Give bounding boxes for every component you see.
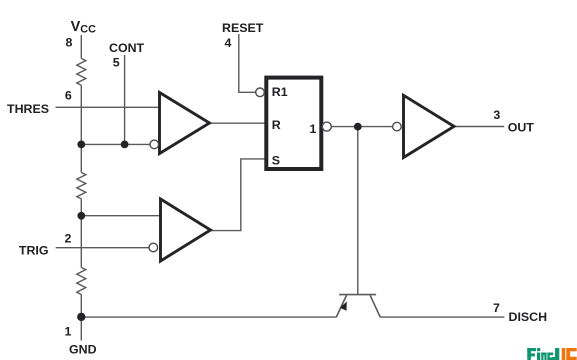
latch U4 box [266, 78, 321, 169]
comparator U1 [160, 93, 210, 154]
svg-text:3: 3 [493, 108, 500, 122]
logo FindIC [527, 348, 576, 360]
transistor Q1 emitter arrow [340, 302, 347, 311]
bubble comparator2 inverting input [149, 243, 158, 252]
wire Vcc stub [80, 35, 82, 58]
svg-text:R: R [272, 118, 281, 132]
svg-text:GND: GND [69, 343, 97, 357]
svg-text:TRIG: TRIG [19, 243, 49, 257]
wire node1 to comparator1 inverting [81, 143, 150, 145]
svg-text:5: 5 [113, 56, 120, 70]
wire THRES pin 6 [56, 106, 161, 108]
wire DISCH pin 7 [380, 316, 504, 318]
wire comparator2 output to S [209, 159, 265, 231]
transistor Q1 [336, 295, 380, 318]
svg-text:2: 2 [65, 231, 72, 245]
logo letter i [537, 348, 540, 360]
wire rail bottom [80, 295, 82, 341]
junction output node [354, 123, 362, 131]
logo letter d bowl [547, 353, 553, 360]
junction GND node [77, 313, 85, 321]
wire node2 to comparator2 noninverting [81, 215, 161, 217]
logo letter d stem [552, 348, 559, 360]
bubble buffer input [393, 122, 402, 131]
svg-text:R1: R1 [272, 85, 288, 99]
svg-text:6: 6 [65, 89, 72, 103]
svg-text:OUT: OUT [508, 120, 535, 134]
wire RESET pin 4 [239, 34, 256, 92]
wire gnd row [81, 316, 336, 318]
wire rail mid2 [80, 199, 82, 268]
wire comparator1 output to R [208, 122, 265, 124]
svg-text:8: 8 [66, 36, 73, 50]
svg-text:CONT: CONT [109, 41, 145, 55]
svg-text:1: 1 [65, 325, 72, 339]
wire node to transistor base [357, 127, 359, 295]
resistor RC [77, 267, 86, 294]
comparator U2 [161, 199, 211, 261]
wire rail mid1 [80, 85, 82, 172]
junction node2 [77, 212, 85, 220]
svg-text:DISCH: DISCH [509, 310, 548, 324]
junction CONT node [121, 141, 129, 149]
svg-text:7: 7 [493, 301, 500, 315]
buffer U3 [404, 95, 455, 157]
wire buffer out pin 3 [453, 126, 504, 128]
logo letter F [527, 348, 536, 360]
bubble R1 input [256, 88, 265, 97]
svg-text:1: 1 [310, 122, 317, 136]
resistor RB [77, 173, 86, 199]
logo letter I [562, 348, 566, 360]
bubble latch output [322, 122, 331, 131]
svg-text:4: 4 [224, 36, 231, 50]
logo letter C [566, 348, 576, 360]
wire CONT pin 5 [124, 55, 126, 144]
svg-text:S: S [272, 153, 280, 167]
wire TRIG pin 2 [56, 247, 149, 249]
bubble comparator1 inverting input [150, 140, 159, 149]
logo letter n [541, 353, 546, 360]
svg-text:RESET: RESET [222, 21, 264, 35]
svg-text:THRES: THRES [7, 102, 49, 116]
resistor RA [77, 58, 86, 85]
junction node1 [77, 141, 85, 149]
wire latch output to buffer [331, 126, 393, 128]
